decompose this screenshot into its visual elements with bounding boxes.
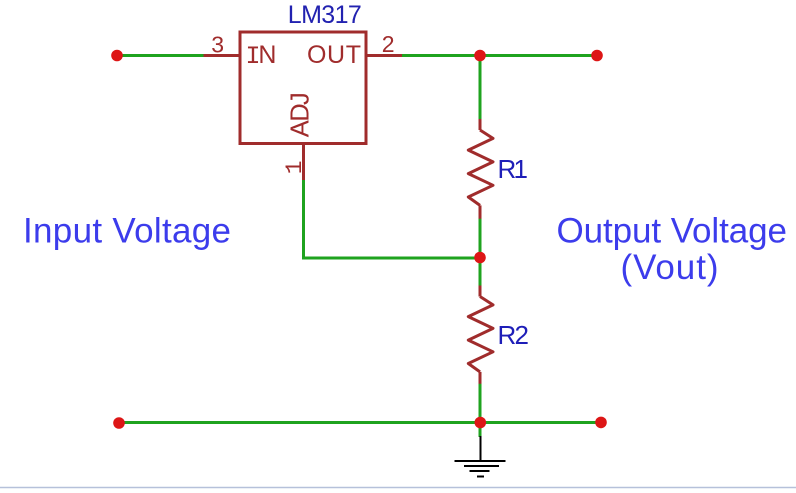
resistor R2: [468, 286, 493, 384]
svg-text:1: 1: [282, 160, 308, 174]
svg-text:Output Voltage: Output Voltage: [557, 211, 788, 250]
node dot OUT junction: [474, 50, 486, 62]
svg-text:R2: R2: [498, 320, 530, 350]
regulator U1 LM317 body: [204, 32, 403, 180]
wire top-right rail: [402, 54, 597, 57]
pin OUT stub: [366, 54, 402, 57]
wire R1 bottom segment: [479, 218, 482, 258]
wire R2 top segment: [479, 258, 482, 286]
node dot bottom-left terminal: [113, 417, 125, 429]
node dot bottom-right terminal: [595, 417, 607, 429]
wire ground stub: [479, 423, 482, 438]
svg-text:Input Voltage: Input Voltage: [23, 211, 231, 250]
svg-text:OUT: OUT: [307, 41, 361, 69]
svg-text:N: N: [258, 41, 276, 69]
wire top-left rail: [117, 54, 204, 57]
node dot ground junction: [475, 417, 487, 429]
wire R2 bottom segment: [479, 383, 482, 423]
resistor R1: [468, 119, 493, 219]
svg-text:R1: R1: [498, 154, 529, 184]
pin IN stub: [204, 54, 241, 57]
pin ADJ stub: [302, 144, 305, 181]
svg-text:3: 3: [211, 31, 224, 57]
svg-text:LM317: LM317: [288, 1, 362, 29]
ground: [455, 436, 506, 477]
wire ADJ horizontal segment: [302, 257, 480, 260]
wire R1 top segment: [479, 56, 482, 121]
node dot input terminal: [111, 50, 123, 62]
wire bottom rail: [119, 421, 601, 424]
svg-text:(Vout): (Vout): [621, 248, 719, 287]
svg-text:ADJ: ADJ: [287, 92, 315, 137]
wire ADJ vertical segment: [302, 180, 305, 258]
node dot output terminal: [591, 50, 603, 62]
svg-text:2: 2: [382, 31, 395, 57]
node dot ADJ junction: [474, 252, 486, 264]
